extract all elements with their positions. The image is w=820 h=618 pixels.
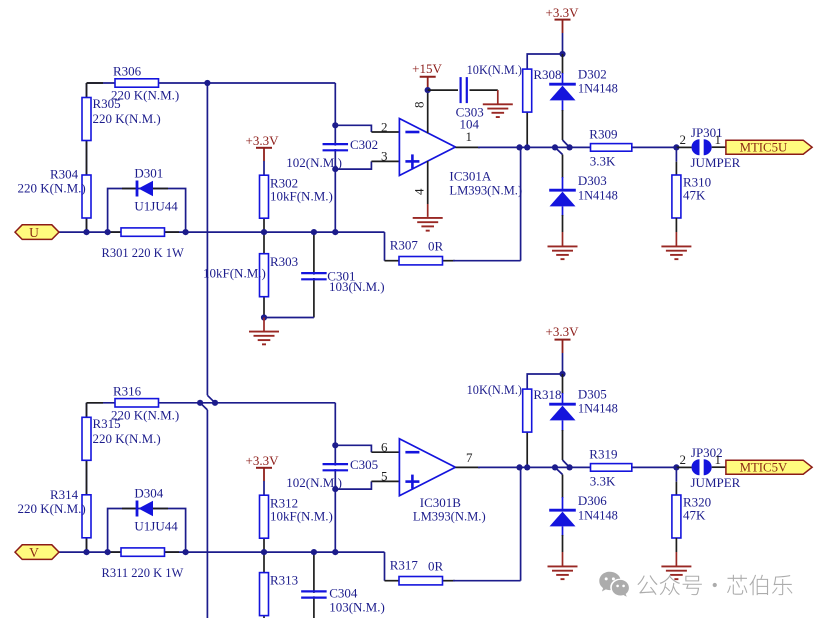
wire output row V <box>455 466 676 468</box>
watermark wechat logo and text <box>599 572 792 597</box>
resistor R311 <box>102 548 184 580</box>
diode D302 <box>549 67 618 101</box>
svg-text:R311 220 K 1W: R311 220 K 1W <box>102 566 184 580</box>
wire D302 top pin <box>562 54 564 84</box>
svg-text:0R: 0R <box>428 559 444 574</box>
capacitor C304 <box>301 586 385 615</box>
pin1 jumper label V <box>715 452 722 467</box>
resistor R305 <box>82 96 161 141</box>
wire to jumper <box>676 146 691 148</box>
ground pin4 <box>413 218 443 231</box>
node outV-R318 <box>524 464 530 470</box>
node outV-R317 <box>516 464 522 470</box>
op-amp U2 IC301B <box>399 439 485 524</box>
capacitor C303 <box>456 77 484 131</box>
resistor R310 <box>672 175 711 219</box>
wire D306 bottom <box>562 526 564 565</box>
wire D305 top pin <box>562 374 564 404</box>
pin 5 label <box>381 469 388 484</box>
pin 4 wire <box>427 161 429 217</box>
wire R317 loop <box>385 467 521 580</box>
wire D303 bottom <box>562 206 564 245</box>
svg-text:8: 8 <box>412 102 427 109</box>
svg-text:+3.3V: +3.3V <box>546 324 580 339</box>
svg-text:U: U <box>29 225 39 240</box>
svg-text:R303: R303 <box>270 254 298 269</box>
svg-text:D303: D303 <box>578 173 607 188</box>
wire R310 bottom <box>675 218 677 246</box>
svg-text:10K(N.M.): 10K(N.M.) <box>467 383 522 397</box>
svg-text:5: 5 <box>381 469 388 484</box>
svg-text:1: 1 <box>466 129 473 144</box>
wire top row <box>87 82 336 84</box>
svg-text:LM393(N.M.): LM393(N.M.) <box>413 509 486 523</box>
node row-C301 <box>311 229 317 235</box>
jumper JP301 <box>691 125 741 170</box>
node pin8 <box>425 87 431 93</box>
ground R303 <box>249 318 279 345</box>
svg-text:IC301A: IC301A <box>449 169 492 184</box>
svg-text:D302: D302 <box>578 67 607 82</box>
node C302 top <box>332 122 338 128</box>
svg-text:1N4148: 1N4148 <box>578 188 618 202</box>
wire C303 row <box>428 89 498 91</box>
svg-text:MTIC5U: MTIC5U <box>740 141 788 155</box>
node V-bracket-left <box>105 549 111 555</box>
node bus-row-b <box>212 400 218 406</box>
ground R310 <box>661 246 691 259</box>
svg-text:R301 220 K 1W: R301 220 K 1W <box>102 246 184 260</box>
svg-text:47K: 47K <box>683 188 706 203</box>
svg-text:3.3K: 3.3K <box>590 474 616 489</box>
svg-text:+3.3V: +3.3V <box>546 5 580 20</box>
pin 4 label <box>412 188 427 195</box>
wire V input row <box>59 551 385 553</box>
resistor R306 <box>111 64 179 103</box>
node outV-R320 <box>673 464 679 470</box>
diode D301 <box>122 166 178 214</box>
svg-text:2: 2 <box>381 120 388 135</box>
svg-text:103(N.M.): 103(N.M.) <box>329 600 385 615</box>
wire R302 column <box>263 161 265 232</box>
wire R303 column <box>263 232 265 317</box>
node out-R307 <box>516 144 522 150</box>
port U <box>15 225 59 240</box>
wire D301 bracket <box>108 189 186 233</box>
pin1 jumper label <box>715 132 722 147</box>
svg-text:102(N.M.): 102(N.M.) <box>286 155 342 170</box>
node +3.3V junction V <box>559 371 565 377</box>
svg-text:R306: R306 <box>113 64 142 79</box>
wire R314 lower pin <box>86 537 88 553</box>
wire left column V <box>86 403 88 552</box>
resistor R309 <box>589 127 632 169</box>
node bus-top junction <box>204 80 210 86</box>
capacitor C302 <box>286 137 378 170</box>
pin 6 label <box>381 440 388 455</box>
wire D306 top <box>555 467 563 510</box>
port V <box>15 545 59 560</box>
node V-R314 <box>83 549 89 555</box>
resistor R313 <box>260 573 299 616</box>
pin2 jumper label V <box>680 452 687 467</box>
wire +3.3V stem <box>562 33 564 54</box>
svg-text:1: 1 <box>715 452 722 467</box>
svg-text:+15V: +15V <box>412 61 442 76</box>
wire R304 lower pin <box>86 217 88 233</box>
svg-text:R304: R304 <box>50 167 79 182</box>
ground R320 <box>661 566 691 579</box>
wire jumper to port V <box>712 466 726 468</box>
wire C305 bus <box>334 403 336 552</box>
node outV-D305 <box>567 464 573 470</box>
wire C301 column <box>313 232 315 317</box>
resistor R304 <box>18 167 92 219</box>
node out-D302 <box>567 144 573 150</box>
svg-text:D304: D304 <box>134 486 163 501</box>
node V-bracket-right <box>183 549 189 555</box>
svg-text:IC301B: IC301B <box>420 495 462 510</box>
jumper JP302 <box>691 445 741 490</box>
svg-text:220 K(N.M.): 220 K(N.M.) <box>111 408 179 423</box>
svg-text:1: 1 <box>715 132 722 147</box>
wire vertical bus <box>200 83 215 618</box>
svg-text:47K: 47K <box>683 508 706 523</box>
svg-text:1N4148: 1N4148 <box>578 402 618 416</box>
node row-C304 <box>311 549 317 555</box>
wire output row <box>455 146 676 148</box>
resistor R315 <box>82 416 161 460</box>
pin 2 label <box>381 120 388 135</box>
wire jumper to port <box>712 146 726 148</box>
node row-R302 <box>261 229 267 235</box>
wire R308 branch <box>527 54 562 147</box>
diode D305 <box>549 387 618 421</box>
svg-text:1N4148: 1N4148 <box>578 82 618 96</box>
power +15V <box>412 61 442 90</box>
node row-R312 <box>261 549 267 555</box>
wire pin6 jog <box>335 445 399 452</box>
svg-text:220 K(N.M.): 220 K(N.M.) <box>93 111 161 126</box>
svg-text:V: V <box>29 545 39 560</box>
svg-text:U1JU44: U1JU44 <box>134 519 178 534</box>
svg-text:U1JU44: U1JU44 <box>134 199 178 214</box>
svg-text:JUMPER: JUMPER <box>691 475 741 490</box>
pin 7 label <box>466 450 473 465</box>
pin 1 label <box>466 129 473 144</box>
svg-text:7: 7 <box>466 450 473 465</box>
wire U input row <box>59 231 385 233</box>
resistor R319 <box>589 447 632 489</box>
wire R313 column <box>263 552 265 618</box>
svg-text:10kF(N.M.): 10kF(N.M.) <box>270 188 333 203</box>
ground D303 <box>548 246 578 259</box>
pin 8 label <box>412 102 427 109</box>
wire R310 branch <box>675 147 677 175</box>
wire to jumper V <box>676 466 691 468</box>
wire pin5 jog <box>335 481 399 489</box>
svg-text:LM393(N.M.): LM393(N.M.) <box>449 184 522 198</box>
node +3.3V junction <box>559 51 565 57</box>
power +3.3V R312 <box>246 453 280 481</box>
svg-text:C304: C304 <box>329 586 358 601</box>
pin 3 label <box>381 149 388 164</box>
resistor R312 <box>260 495 333 538</box>
wire R318 branch <box>527 374 562 467</box>
wire R305-R304 link <box>87 83 104 175</box>
svg-text:0R: 0R <box>428 239 444 254</box>
resistor R317 <box>390 558 444 585</box>
wire R303 bottom link <box>264 317 314 319</box>
resistor R314 <box>18 487 92 538</box>
svg-text:10kF(N.M.): 10kF(N.M.) <box>203 266 266 281</box>
diode D306 <box>549 493 618 526</box>
svg-text:3.3K: 3.3K <box>590 154 616 169</box>
svg-text:220 K(N.M.): 220 K(N.M.) <box>111 88 179 103</box>
wire R316 row <box>87 402 336 404</box>
wire R312 column <box>263 481 265 552</box>
svg-text:+3.3V: +3.3V <box>246 133 280 148</box>
node row-C302bus <box>332 229 338 235</box>
node out-R310 <box>673 144 679 150</box>
wire C302 bus <box>334 83 336 232</box>
node out-D303 <box>552 144 558 150</box>
capacitor C301 <box>301 269 384 295</box>
wire pin3 jog <box>335 161 399 169</box>
svg-text:R309: R309 <box>589 127 617 142</box>
resistor R320 <box>672 495 711 539</box>
svg-text:2: 2 <box>680 132 687 147</box>
port MTIC5V <box>726 460 812 474</box>
svg-text:10kF(N.M.): 10kF(N.M.) <box>270 508 333 523</box>
svg-text:R319: R319 <box>589 447 617 462</box>
svg-text:2: 2 <box>680 452 687 467</box>
node bus-row-a <box>197 400 203 406</box>
resistor R316 <box>111 384 179 423</box>
node C305 top <box>332 442 338 448</box>
power +3.3V R302 <box>246 133 280 161</box>
wire C304 column <box>313 552 315 618</box>
svg-text:D306: D306 <box>578 493 607 508</box>
node U-bracket-right <box>183 229 189 235</box>
power +3.3V mid <box>546 324 580 353</box>
pin 8 wire <box>427 90 429 133</box>
ground C303 <box>483 90 513 117</box>
svg-text:4: 4 <box>412 188 427 195</box>
pin2 jumper label <box>680 132 687 147</box>
svg-text:MTIC5V: MTIC5V <box>740 461 788 475</box>
port MTIC5U <box>726 140 812 154</box>
svg-text:JUMPER: JUMPER <box>691 155 741 170</box>
resistor R303 <box>203 254 298 297</box>
svg-text:3: 3 <box>381 149 388 164</box>
capacitor C305 <box>286 457 378 490</box>
ground D306 <box>548 566 578 579</box>
wire D304 bracket <box>108 509 186 553</box>
node row-C305bus <box>332 549 338 555</box>
svg-text:R307: R307 <box>390 238 419 253</box>
svg-text:R318: R318 <box>533 387 561 402</box>
wire D303 top <box>555 147 563 190</box>
svg-text:C302: C302 <box>350 137 378 152</box>
svg-text:6: 6 <box>381 440 388 455</box>
diode D304 <box>122 486 178 534</box>
wire R307 loop <box>385 147 521 260</box>
op-amp U1 IC301A <box>399 119 522 198</box>
node out-R308 <box>524 144 530 150</box>
diode D303 <box>549 173 618 206</box>
svg-text:C305: C305 <box>350 457 378 472</box>
node U-bracket-left <box>105 229 111 235</box>
wire left column <box>86 83 88 232</box>
svg-text:220 K(N.M.): 220 K(N.M.) <box>18 501 86 516</box>
svg-text:103(N.M.): 103(N.M.) <box>329 279 385 294</box>
resistor R308 <box>467 63 562 112</box>
resistor R302 <box>260 175 333 218</box>
wire R315-R314 link <box>87 403 104 495</box>
node C305 bottom <box>332 486 338 492</box>
svg-text:1N4148: 1N4148 <box>578 508 618 522</box>
svg-text:102(N.M.): 102(N.M.) <box>286 475 342 490</box>
svg-text:R314: R314 <box>50 487 79 502</box>
resistor R318 <box>467 383 562 432</box>
wire +3.3V stem V <box>562 353 564 374</box>
node U-R304 <box>83 229 89 235</box>
wire D305 bottom <box>563 420 570 467</box>
svg-text:R313: R313 <box>270 573 298 588</box>
svg-text:D301: D301 <box>134 166 163 181</box>
node C302 bottom <box>332 166 338 172</box>
svg-text:220 K(N.M.): 220 K(N.M.) <box>18 181 86 196</box>
svg-text:R316: R316 <box>113 384 142 399</box>
svg-text:220 K(N.M.): 220 K(N.M.) <box>93 431 161 446</box>
wire D302 bottom <box>563 100 570 147</box>
power +3.3V top <box>546 5 580 33</box>
svg-text:+3.3V: +3.3V <box>246 453 280 468</box>
svg-text:D305: D305 <box>578 387 607 402</box>
svg-text:R305: R305 <box>93 96 121 111</box>
wire R320 branch <box>675 467 677 495</box>
node R303-gnd <box>261 314 267 320</box>
node outV-D306 <box>552 464 558 470</box>
wire pin2 jog <box>335 125 399 132</box>
svg-text:R315: R315 <box>93 416 121 431</box>
svg-text:10K(N.M.): 10K(N.M.) <box>467 63 522 77</box>
resistor R307 <box>390 238 444 265</box>
svg-text:R317: R317 <box>390 558 419 573</box>
wire R320 bottom <box>675 538 677 566</box>
svg-text:R308: R308 <box>533 67 561 82</box>
resistor R301 <box>102 228 184 260</box>
